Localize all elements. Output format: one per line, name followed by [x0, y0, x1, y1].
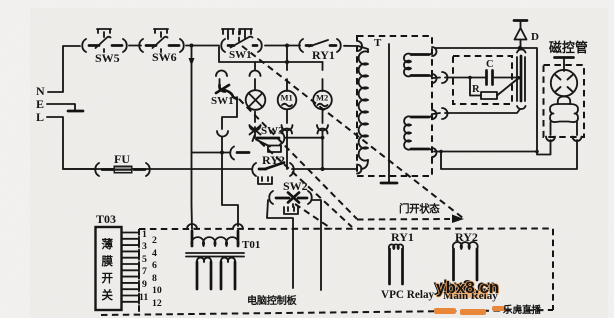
svg-text:11: 11	[139, 292, 148, 303]
junction top of feed	[190, 44, 194, 48]
wire SW2 left	[267, 200, 293, 288]
wire lamp drop	[254, 62, 256, 70]
label RY2 contact	[262, 153, 285, 167]
relay contact RY2	[252, 163, 294, 177]
relay contact RY1	[299, 39, 341, 62]
junction M2 rail	[321, 167, 325, 171]
wire E lead	[47, 104, 75, 110]
connector T01 right	[233, 224, 243, 229]
junction SW1 lower	[220, 151, 224, 155]
junction heater tee	[439, 150, 443, 154]
svg-text:2: 2	[152, 235, 157, 246]
winding filament HV	[517, 49, 526, 109]
connector lamp bottom	[250, 125, 261, 131]
svg-text:L: L	[36, 110, 44, 124]
wire HV top	[435, 47, 519, 49]
connector lamp top	[250, 71, 261, 77]
svg-text:SW2: SW2	[283, 179, 308, 193]
wire M2 stubs	[322, 79, 324, 123]
wire L lead	[47, 117, 96, 169]
svg-text:6: 6	[152, 260, 157, 271]
connector RY2 upper	[230, 147, 234, 160]
svg-text:磁控管: 磁控管	[549, 40, 588, 55]
contact arm RY2 upper	[237, 151, 249, 154]
door switch SW1 lower	[211, 79, 237, 129]
switch SW2	[269, 179, 312, 214]
node L	[36, 110, 44, 124]
connector T01 left	[187, 224, 197, 229]
svg-text:SW5: SW5	[95, 51, 120, 65]
resistor R	[470, 78, 518, 100]
wire bottom rail right	[292, 168, 356, 170]
connector plug below RY2	[258, 177, 272, 184]
svg-text:M2: M2	[316, 93, 328, 103]
junction M1 top	[285, 44, 289, 48]
svg-text:10: 10	[152, 285, 162, 296]
junction sub rail M1	[285, 60, 289, 64]
membrane lines 1-12	[122, 231, 139, 304]
svg-text:12: 12	[152, 298, 162, 309]
connector T right edge 1	[432, 47, 437, 56]
label magnetron	[549, 40, 588, 55]
switch SW6	[139, 29, 184, 64]
svg-text:T: T	[374, 37, 382, 49]
svg-text:膜: 膜	[102, 254, 114, 268]
pin numbers	[139, 229, 162, 309]
lamp	[246, 90, 266, 110]
svg-text:N: N	[36, 84, 45, 98]
svg-text:4: 4	[152, 248, 157, 259]
wire M1 bottom	[286, 131, 288, 169]
relay coil RY2	[443, 230, 498, 302]
svg-text:1: 1	[142, 229, 147, 240]
linkage dashed D1	[239, 31, 463, 218]
transformer T box	[357, 36, 432, 176]
svg-text:ybx8.cn: ybx8.cn	[436, 278, 499, 297]
connector M2 bottom	[317, 125, 328, 134]
svg-text:关: 关	[102, 288, 114, 302]
label T	[374, 37, 382, 49]
wire sub rail	[219, 47, 323, 62]
contact SW3 output	[257, 132, 324, 145]
watermark ybx8	[436, 278, 499, 297]
wire feed vertical to T01	[189, 46, 195, 230]
filament magnetron	[550, 97, 578, 123]
connector T primary top	[357, 41, 362, 51]
label door open state	[399, 202, 440, 215]
link SW3 to RY2	[256, 140, 281, 153]
wire RY2 upper row	[192, 152, 231, 154]
wire M1 drop	[286, 46, 288, 71]
antenna magnetron	[555, 58, 574, 72]
winding T primary	[358, 46, 368, 169]
svg-text:3: 3	[142, 241, 147, 252]
svg-text:R: R	[472, 84, 480, 95]
ground E	[68, 110, 83, 113]
core T	[388, 44, 390, 176]
svg-text:T03: T03	[96, 212, 116, 226]
svg-text:9: 9	[142, 279, 147, 290]
winding T secondary lower	[404, 114, 432, 152]
label control board	[247, 294, 298, 307]
svg-text:SW1: SW1	[229, 49, 252, 61]
wire top rail d	[344, 45, 356, 47]
linkage dashed D4	[295, 204, 332, 229]
linkage dashed D3	[260, 142, 352, 227]
connector SW1 branch	[216, 71, 227, 77]
junction diode	[518, 46, 522, 50]
wire diode to filament	[520, 48, 537, 151]
junction C left	[468, 76, 472, 80]
connector T right edge 4	[432, 148, 437, 157]
svg-text:VPC Relay: VPC Relay	[381, 289, 435, 301]
diode D	[514, 21, 539, 49]
node N	[36, 84, 45, 98]
ground T core	[381, 176, 397, 183]
wire heater run	[434, 151, 537, 153]
wire lamp bottom	[254, 112, 256, 123]
watermark orange	[434, 277, 542, 317]
wire top rail b	[186, 45, 219, 47]
svg-text:C: C	[486, 59, 494, 70]
wire SW1 to T01	[222, 153, 238, 226]
svg-text:7: 7	[142, 266, 147, 277]
switch SW3	[250, 125, 285, 141]
wire M2 drop	[322, 62, 324, 70]
svg-text:SW1: SW1	[211, 95, 234, 107]
connector M1 bottom	[282, 125, 293, 134]
wire M2 bottom	[322, 131, 324, 169]
svg-text:M1: M1	[281, 93, 293, 103]
svg-text:T01: T01	[242, 239, 260, 251]
magnetron box	[544, 65, 585, 137]
wire SW1 to junction	[221, 137, 223, 153]
svg-text:FU: FU	[114, 152, 130, 166]
svg-text:门开状态: 门开状态	[399, 202, 440, 215]
fuse FU	[95, 152, 150, 176]
junction filament	[535, 150, 539, 154]
transformer T01	[186, 231, 260, 289]
svg-text:RY1: RY1	[391, 230, 414, 244]
svg-text:乐虎直播: 乐虎直播	[503, 304, 542, 316]
wire top rail c	[265, 45, 300, 47]
wire C feed	[433, 72, 486, 83]
node E	[36, 97, 44, 111]
svg-text:5: 5	[142, 254, 147, 265]
connector T right edge 3	[432, 110, 437, 119]
motor M2	[313, 91, 332, 110]
svg-text:8: 8	[152, 273, 157, 284]
wire lamp stub	[254, 79, 256, 89]
wire filament right leg	[576, 122, 578, 135]
wire filament left	[537, 140, 551, 155]
connector T primary bottom	[357, 165, 362, 174]
junction C right	[517, 76, 521, 80]
linkage dashed D2	[239, 99, 357, 219]
connector filament left	[546, 137, 555, 142]
motor M1	[278, 91, 297, 110]
connector T right edge 2	[432, 74, 437, 83]
svg-text:电脑控制板: 电脑控制板	[247, 294, 298, 307]
svg-text:开: 开	[102, 272, 114, 285]
capacitor C	[486, 59, 518, 85]
membrane switch T03	[96, 212, 122, 310]
switch SW5	[82, 29, 127, 65]
wire bottom rail left	[63, 168, 252, 170]
door switch SW1 top	[221, 29, 262, 61]
wire filament right	[441, 140, 577, 169]
wire M1 stubs	[286, 79, 288, 123]
relay coil RY1	[381, 230, 435, 301]
linkage dashed horizontal	[357, 218, 450, 221]
arrowhead door state	[452, 215, 464, 224]
connector SW1 bottom	[217, 131, 228, 137]
capacitor box	[453, 56, 512, 104]
control board box	[101, 229, 553, 316]
wire top rail a	[129, 45, 141, 47]
wire N lead	[48, 46, 80, 92]
wire SW2 right	[312, 200, 321, 290]
svg-text:RY1: RY1	[312, 48, 335, 62]
winding T secondary upper	[404, 52, 432, 79]
wire HV bottom	[433, 108, 520, 119]
svg-text:薄: 薄	[102, 237, 114, 251]
svg-text:D: D	[531, 31, 539, 43]
connector filament right	[573, 137, 582, 142]
svg-text:SW6: SW6	[152, 50, 177, 64]
magnetron tube	[551, 70, 577, 96]
svg-text:E: E	[36, 97, 44, 111]
wire filament left leg	[550, 122, 552, 135]
